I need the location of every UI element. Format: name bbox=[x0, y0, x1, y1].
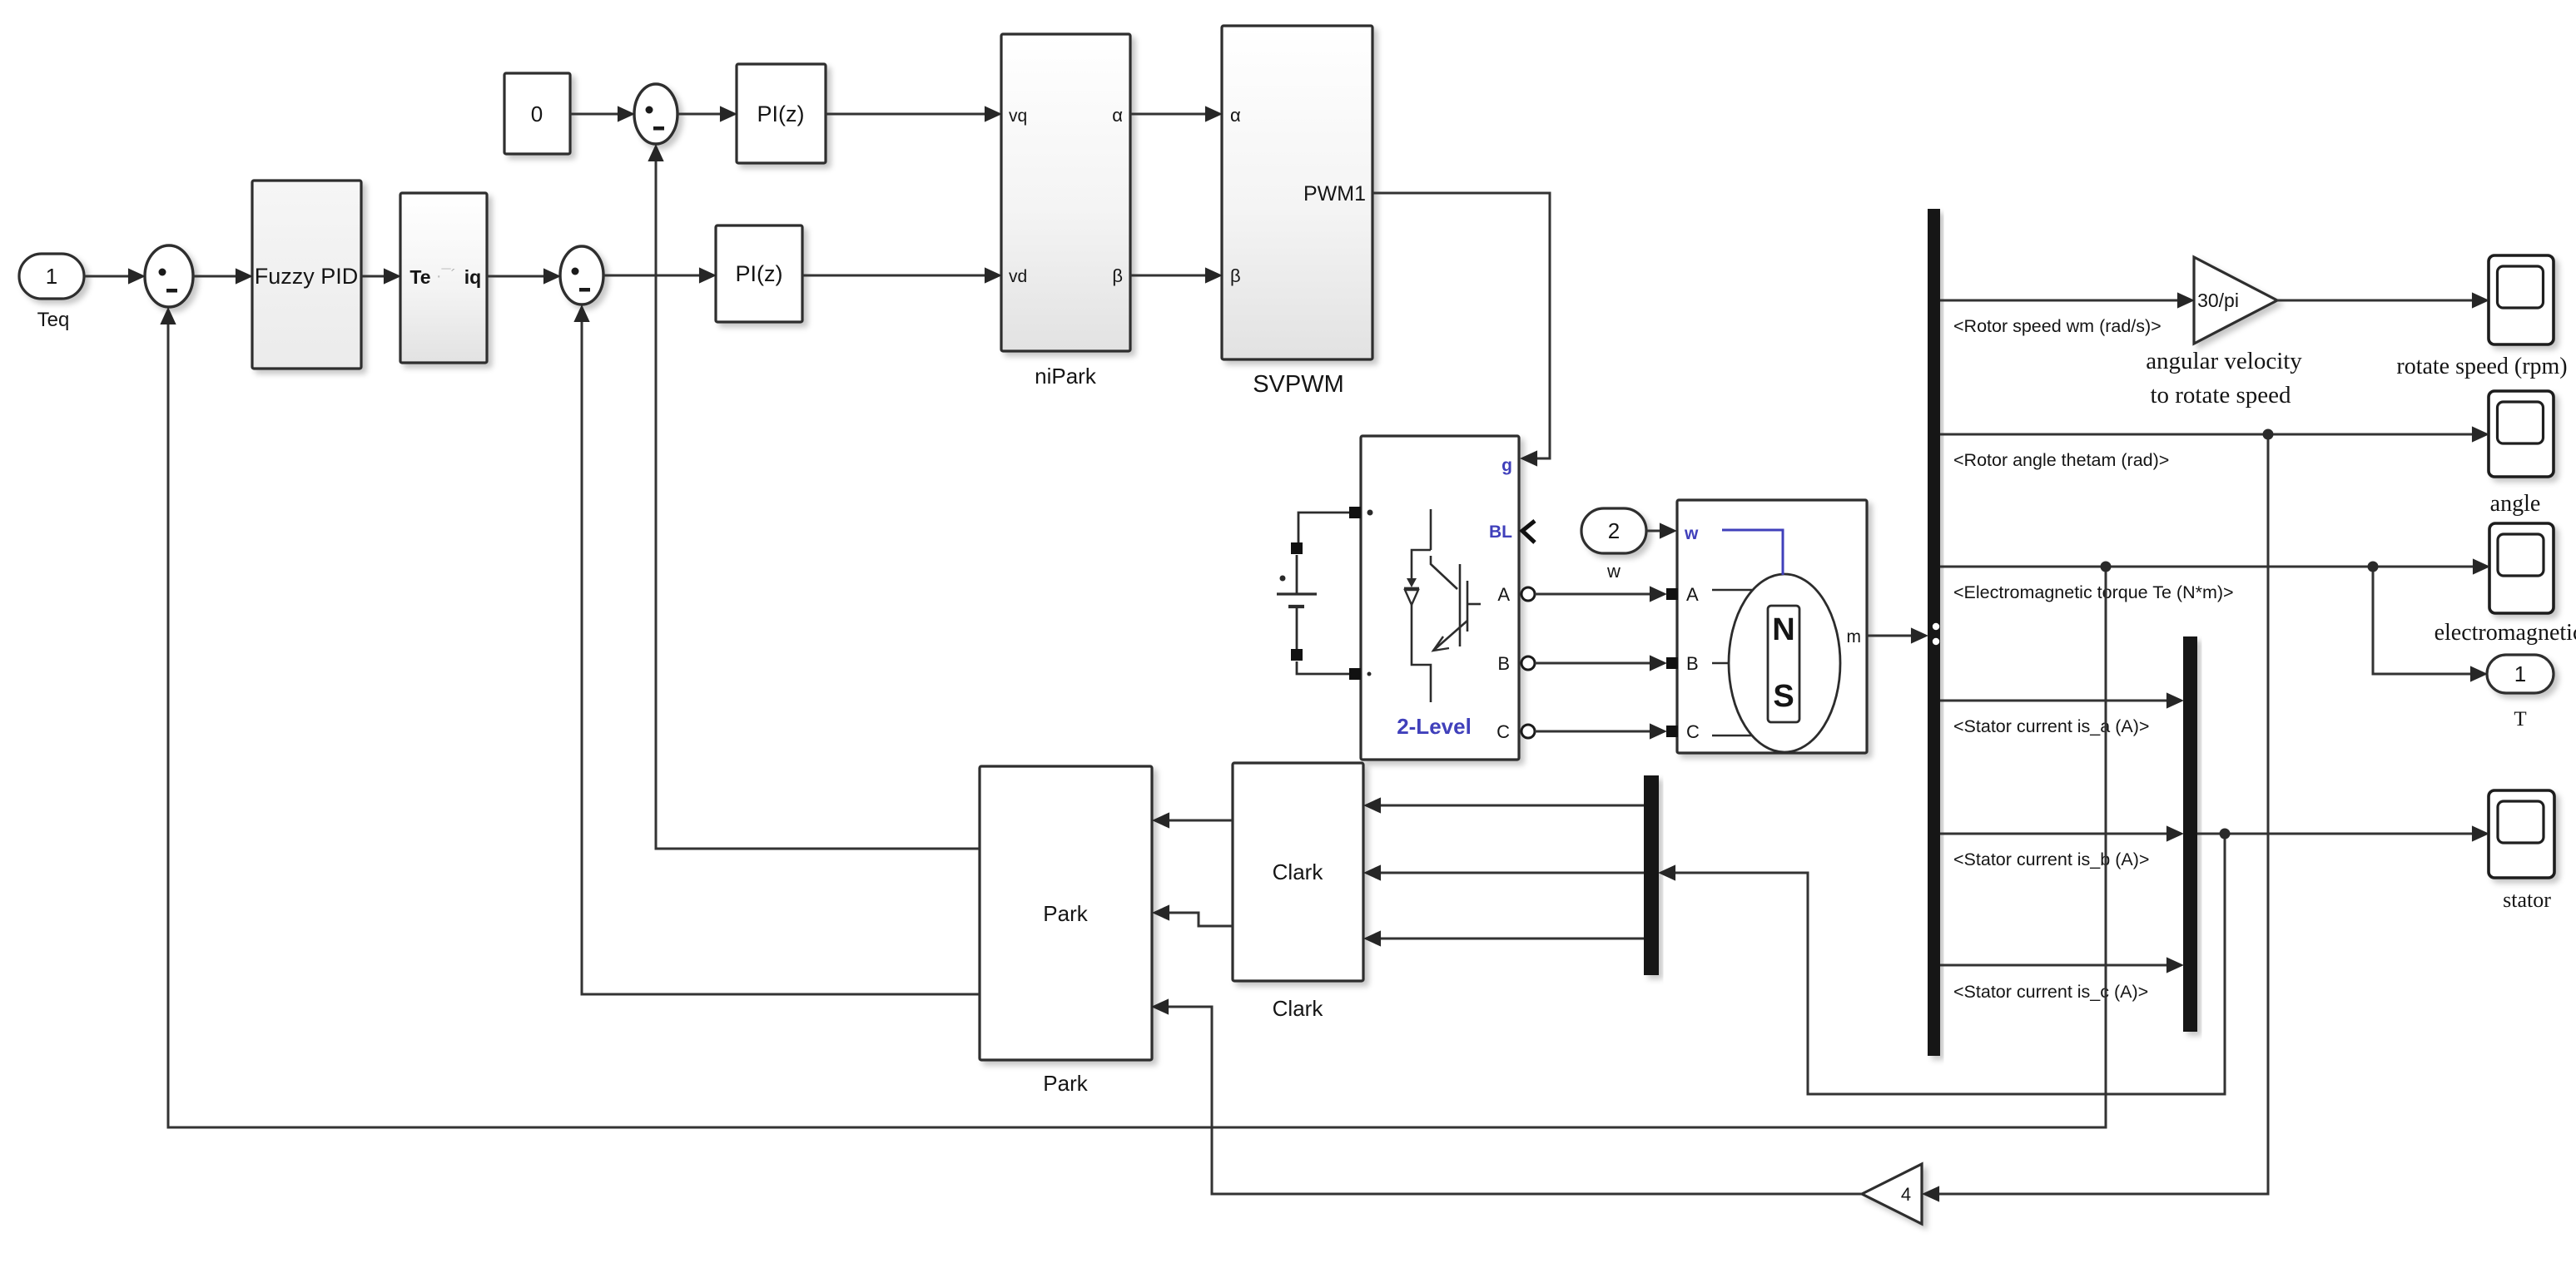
subsystem SVPWM bbox=[1222, 26, 1372, 359]
constant 0 (id reference) bbox=[504, 73, 570, 154]
svg-text:1: 1 bbox=[46, 264, 57, 289]
svg-text:B: B bbox=[1497, 653, 1510, 674]
svg-text:<Electromagnetic torque Te (N*: <Electromagnetic torque Te (N*m)> bbox=[1953, 582, 2234, 602]
wire Teq to S1 bbox=[84, 275, 143, 278]
svg-text:2-Level: 2-Level bbox=[1397, 714, 1472, 739]
svg-text:PI(z): PI(z) bbox=[736, 261, 783, 286]
svg-text:<Rotor angle thetam (rad)>: <Rotor angle thetam (rad)> bbox=[1953, 450, 2169, 470]
scope electromagnetic bbox=[2489, 523, 2554, 613]
svg-text:niPark: niPark bbox=[1035, 364, 1097, 389]
motor left port pads bbox=[1666, 588, 1678, 600]
motor internal stubs bbox=[1712, 590, 1752, 736]
subsystem niPark (inverse Park) bbox=[1001, 34, 1130, 351]
wire gain 30/pi to rotate speed scope bbox=[2277, 300, 2487, 302]
svg-text:<Stator current is_a (A)>: <Stator current is_a (A)> bbox=[1953, 716, 2149, 736]
wire PI(z) d to niPark vd bbox=[802, 275, 1000, 277]
converter block 2-Level bbox=[1361, 436, 1519, 760]
svg-text:·¯´: ·¯´ bbox=[436, 267, 456, 285]
svg-text:stator: stator bbox=[2503, 888, 2551, 912]
junction torque outport branch bbox=[2368, 562, 2379, 572]
svg-text:BL: BL bbox=[1489, 523, 1512, 542]
gain 4 pole pairs bbox=[1862, 1164, 1922, 1224]
wire demux a to Clark bbox=[1366, 805, 1644, 807]
svg-text:angle: angle bbox=[2490, 491, 2541, 517]
junction stator vector branch bbox=[2220, 829, 2231, 840]
svg-text:electromagnetic: electromagnetic bbox=[2435, 620, 2576, 646]
inport 1 Teq bbox=[19, 254, 84, 299]
wire converter B to motor B bbox=[1535, 662, 1665, 665]
svg-text:α: α bbox=[1112, 105, 1123, 126]
wire Park iq out feedback to S3 bbox=[656, 146, 980, 849]
svg-text:to rotate speed: to rotate speed bbox=[2150, 382, 2291, 409]
svg-text:SVPWM: SVPWM bbox=[1253, 371, 1344, 398]
svg-text:Te: Te bbox=[409, 266, 430, 288]
wire converter C to motor C bbox=[1535, 731, 1665, 733]
IGBT diode sketch inside converter bbox=[1404, 509, 1481, 702]
svg-text:0: 0 bbox=[531, 102, 543, 126]
wire stator current b to mux bbox=[1940, 833, 2181, 835]
svg-text:rotate speed (rpm): rotate speed (rpm) bbox=[2396, 354, 2567, 379]
wire motor m to bus selector bbox=[1867, 635, 1926, 637]
svg-text:PWM1: PWM1 bbox=[1303, 182, 1366, 206]
wire Clark alpha to Park bbox=[1154, 820, 1233, 822]
svg-text:vd: vd bbox=[1009, 267, 1027, 286]
wire niPark alpha to SVPWM bbox=[1130, 113, 1220, 116]
svg-text:Park: Park bbox=[1043, 1071, 1088, 1096]
junction rotor angle branch bbox=[2263, 429, 2274, 440]
wire Te-iq to S2 bbox=[487, 275, 558, 278]
converter output port rings A B C bbox=[1521, 587, 1535, 601]
svg-text:vq: vq bbox=[1009, 106, 1027, 126]
svg-text:A: A bbox=[1497, 584, 1510, 605]
svg-text:4: 4 bbox=[1901, 1184, 1911, 1205]
svg-text:g: g bbox=[1501, 456, 1512, 475]
wire stator current c to mux bbox=[1940, 964, 2181, 967]
wire S3 to PI(z) q bbox=[678, 113, 735, 116]
wire stator vector loop to demux bbox=[1660, 834, 2225, 1094]
outport 1 T bbox=[2487, 655, 2554, 693]
subsystem Park transform bbox=[980, 766, 1152, 1060]
svg-text:Fuzzy PID: Fuzzy PID bbox=[255, 264, 359, 289]
svg-text:30/pi: 30/pi bbox=[2197, 290, 2239, 311]
svg-text:1: 1 bbox=[2514, 661, 2526, 686]
svg-text:Clark: Clark bbox=[1273, 996, 1324, 1021]
wire mux out to stator scope bbox=[2197, 833, 2487, 835]
wire rotor speed to gain 30/pi bbox=[1940, 300, 2192, 302]
subsystem Fuzzy PID bbox=[252, 181, 361, 369]
svg-text:C: C bbox=[1686, 721, 1700, 742]
svg-text:α: α bbox=[1230, 105, 1241, 126]
wire torque branch to outport T bbox=[2373, 567, 2485, 674]
svg-text:Clark: Clark bbox=[1273, 859, 1324, 884]
svg-text:w: w bbox=[1606, 561, 1621, 582]
bus selector bar (PMSM measurement bus) bbox=[1928, 209, 1940, 1056]
svg-text:Teq: Teq bbox=[37, 309, 70, 331]
wire gain 4 to Park theta input bbox=[1154, 1007, 1862, 1194]
svg-text:angular velocity: angular velocity bbox=[2146, 348, 2302, 374]
sum junction S1 (Teq - Te) bbox=[145, 245, 193, 307]
svg-text:<Stator current is_b (A)>: <Stator current is_b (A)> bbox=[1953, 849, 2149, 869]
svg-text:B: B bbox=[1686, 653, 1699, 674]
svg-text:β: β bbox=[1230, 265, 1241, 286]
svg-text:β: β bbox=[1112, 265, 1123, 286]
blue w wire inside motor bbox=[1722, 530, 1783, 575]
magnet N S rectangle bbox=[1768, 606, 1799, 722]
wire rotor angle to angle scope bbox=[1940, 433, 2487, 436]
PI controller PI(z) q-axis bbox=[737, 64, 826, 163]
svg-text:T: T bbox=[2514, 708, 2526, 731]
svg-text:2: 2 bbox=[1608, 518, 1620, 543]
wire S1 to Fuzzy PID bbox=[193, 275, 251, 278]
wire torque to electromagnetic scope bbox=[1940, 566, 2488, 568]
svg-text:w: w bbox=[1684, 524, 1699, 543]
wire stator current a to mux bbox=[1940, 700, 2181, 702]
converter left port pads bbox=[1349, 507, 1361, 518]
wire 0 to S3 bbox=[570, 113, 633, 116]
svg-text:<Rotor speed wm (rad/s)>: <Rotor speed wm (rad/s)> bbox=[1953, 316, 2162, 336]
scope rotate speed (rpm) bbox=[2489, 255, 2554, 344]
wire SVPWM PWM1 to converter g bbox=[1372, 193, 1550, 458]
wire converter A to motor A bbox=[1535, 593, 1665, 596]
demux bar (currents to Clark) bbox=[1644, 775, 1659, 975]
svg-text:C: C bbox=[1496, 721, 1510, 742]
wire niPark beta to SVPWM bbox=[1130, 275, 1220, 277]
motor block PMSM bbox=[1677, 500, 1867, 753]
scope stator bbox=[2489, 790, 2554, 878]
constant 2 (speed ref) bbox=[1581, 508, 1646, 553]
sum junction S3 (0 - id) bbox=[634, 84, 678, 144]
svg-text:Park: Park bbox=[1043, 901, 1088, 926]
bus creator bar (stator currents mux) bbox=[2183, 636, 2197, 1032]
wire S2 to PI(z) d bbox=[603, 275, 714, 277]
wire torque feedback to S1 bbox=[168, 310, 2106, 1127]
subsystem Clark transform bbox=[1233, 763, 1363, 981]
PI controller PI(z) d-axis bbox=[716, 225, 802, 322]
BL chevron input bbox=[1522, 521, 1535, 542]
svg-text:A: A bbox=[1686, 584, 1699, 605]
wire PI(z) q to niPark vq bbox=[826, 113, 1000, 116]
wire Park id out feedback to S2 bbox=[582, 307, 980, 994]
svg-text:S: S bbox=[1773, 679, 1794, 714]
svg-text:iq: iq bbox=[464, 266, 481, 288]
motor rotor ellipse bbox=[1729, 574, 1840, 752]
subsystem Te to iq bbox=[400, 193, 487, 363]
junction torque feedback branch bbox=[2101, 562, 2112, 572]
sum junction S2 (iq* - iq) bbox=[560, 246, 603, 305]
DC voltage source battery bbox=[1277, 513, 1349, 674]
wire constant 2 to motor w bbox=[1646, 530, 1675, 532]
wire demux c to Clark bbox=[1366, 938, 1644, 940]
wire demux b to Clark bbox=[1366, 872, 1644, 874]
svg-text:m: m bbox=[1847, 627, 1862, 646]
svg-text:N: N bbox=[1772, 612, 1794, 647]
wire Fuzzy PID to Te-iq bbox=[361, 275, 399, 278]
bus selector port dots bbox=[1933, 623, 1939, 630]
scope angle bbox=[2489, 391, 2554, 477]
wire angle down to gain 4 bbox=[1924, 434, 2268, 1194]
wire Clark beta to Park bbox=[1154, 913, 1233, 926]
svg-text:PI(z): PI(z) bbox=[757, 102, 805, 126]
gain 30/pi angular velocity to rotate speed bbox=[2194, 257, 2277, 344]
svg-text:<Stator current is_c (A)>: <Stator current is_c (A)> bbox=[1953, 982, 2148, 1002]
